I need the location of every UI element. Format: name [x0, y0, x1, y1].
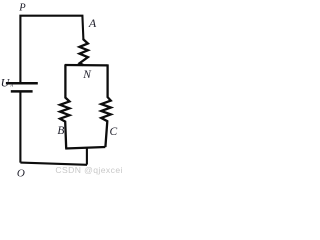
node N top bar: [65, 64, 108, 67]
svg-text:A: A: [9, 83, 13, 88]
wire: lower-left vertical (battery to bottom wire): [19, 92, 21, 163]
resistor R1 (between A and N) zigzag: [80, 39, 88, 65]
svg-text:CSDN @qjexcei: CSDN @qjexcei: [55, 165, 122, 175]
bottom bar of parallel section: [65, 147, 105, 149]
resistor B branch (left parallel): wire + zigzag + wire: [60, 64, 70, 148]
stem from bottom bar to bottom wire: [86, 147, 88, 164]
wire: upper-left vertical, top wire P to A, and drop to R1: [20, 16, 83, 83]
svg-text:U: U: [1, 75, 11, 89]
svg-text:A: A: [88, 16, 97, 30]
resistor C branch (right parallel): wire + zigzag + wire: [101, 64, 111, 147]
battery U: long top plate: [6, 82, 38, 85]
svg-text:N: N: [82, 69, 92, 81]
svg-text:P: P: [18, 3, 26, 14]
svg-text:O: O: [17, 168, 25, 180]
bottom wire O to stem: [20, 163, 87, 165]
battery U: short bottom plate: [11, 90, 33, 93]
svg-text:B: B: [57, 125, 64, 137]
svg-text:C: C: [110, 126, 118, 138]
